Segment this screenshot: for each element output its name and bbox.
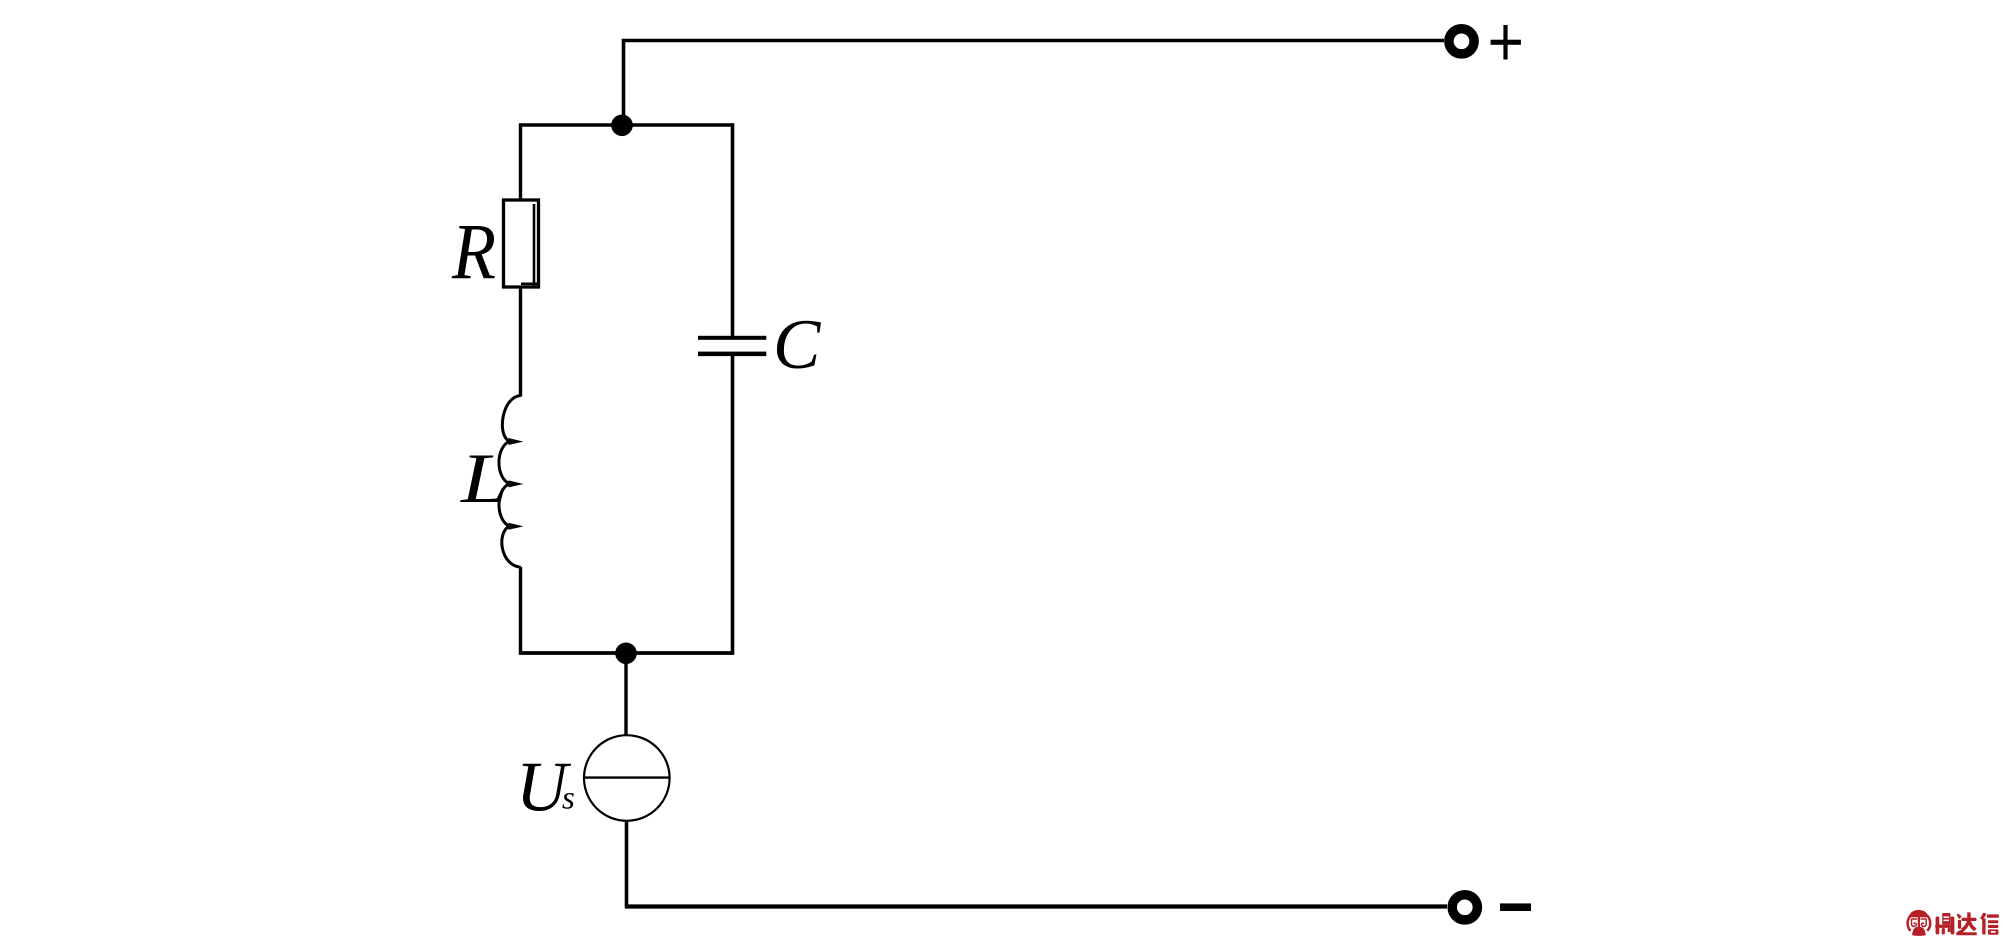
- svg-text:s: s: [562, 781, 575, 817]
- svg-text:L: L: [460, 438, 508, 517]
- svg-text:R: R: [451, 210, 496, 297]
- svg-text:C: C: [773, 306, 822, 384]
